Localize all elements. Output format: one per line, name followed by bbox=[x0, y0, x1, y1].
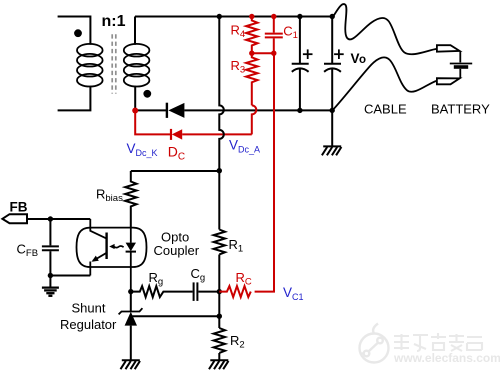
wire output rail left bbox=[135, 109, 167, 111]
node output rail / cap1 bbox=[297, 108, 302, 113]
transistor (opto) bbox=[90, 219, 106, 276]
wire top rail bbox=[135, 16, 332, 18]
wire to earth ground bbox=[49, 276, 51, 288]
wire Dc anode link bbox=[182, 133, 252, 135]
node led / Rg bbox=[128, 289, 133, 294]
connector FB bbox=[2, 214, 27, 223]
resistor R3 bbox=[246, 53, 257, 105]
svg-text:Shunt: Shunt bbox=[72, 300, 106, 315]
ground (chassis, output) bbox=[322, 146, 341, 155]
wire output rail right bbox=[184, 109, 332, 111]
node feedback divider top bbox=[217, 168, 222, 173]
node FB / CFB bbox=[48, 216, 53, 221]
watermark logo bbox=[360, 324, 389, 363]
secondary polarity dot bbox=[143, 90, 151, 98]
primary polarity dot bbox=[74, 29, 82, 37]
wire primary top stub bbox=[58, 17, 91, 45]
capacitor C1 bbox=[265, 17, 283, 54]
shunt regulator (TL431) bbox=[119, 292, 143, 361]
node top rail / middle vertical bbox=[217, 14, 222, 19]
led (opto) bbox=[126, 228, 136, 292]
resistor Rbias bbox=[125, 171, 136, 228]
svg-text:CABLE: CABLE bbox=[364, 102, 407, 117]
node top rail / cap2 cable bbox=[330, 14, 335, 19]
capacitor Cg bbox=[172, 282, 219, 301]
diode Dc (red) bbox=[171, 129, 182, 140]
wire C1 long line down to Rc bbox=[255, 53, 274, 291]
ground (chassis, shunt) bbox=[121, 360, 141, 369]
wire ref to divider bbox=[133, 315, 220, 317]
plus sign cap2 bbox=[334, 49, 344, 59]
transformer primary winding bbox=[77, 44, 103, 87]
battery symbol bbox=[450, 51, 472, 78]
diode (black rectifier) bbox=[167, 103, 185, 118]
wire secondary bottom lead bbox=[134, 86, 136, 111]
svg-text:Opto: Opto bbox=[161, 229, 189, 244]
wire R4-C1 bottom link bbox=[252, 52, 274, 54]
capacitor output 2 bbox=[324, 17, 341, 111]
node Rc / Cg / R1 bbox=[217, 289, 222, 294]
wire Dc cathode link bbox=[135, 111, 171, 135]
svg-text:FB: FB bbox=[10, 200, 28, 215]
wire middle vertical with hops bbox=[219, 17, 224, 230]
node R4 bottom bbox=[249, 51, 254, 56]
capacitor CFB bbox=[42, 219, 59, 276]
wire CFB bottom to opto bbox=[50, 275, 90, 277]
node top rail / cap1 bbox=[297, 14, 302, 19]
svg-text:Coupler: Coupler bbox=[154, 243, 200, 258]
transistor emitter arrow bbox=[92, 256, 99, 262]
resistor R2 bbox=[214, 328, 225, 353]
node R4 top (red) bbox=[249, 14, 254, 19]
watermark chinese text bbox=[394, 333, 482, 351]
light arrow bbox=[109, 244, 123, 249]
ground (chassis, R2) bbox=[209, 360, 229, 369]
node secondary bottom (red) bbox=[132, 108, 138, 114]
ground (earth, CFB) bbox=[42, 288, 59, 296]
wire cable lower bbox=[332, 57, 437, 110]
wire FB to opto bbox=[27, 218, 90, 220]
wire cable upper bbox=[332, 4, 437, 54]
node output rail / cap2 bbox=[330, 108, 335, 113]
resistor Rc (red) bbox=[219, 286, 250, 297]
connector plug upper bbox=[437, 45, 460, 52]
resistor R1 bbox=[214, 230, 225, 255]
wire primary bottom stub bbox=[58, 86, 91, 111]
wire secondary top lead bbox=[134, 17, 136, 45]
svg-text:Regulator: Regulator bbox=[60, 317, 117, 332]
wire cap2 to ground bbox=[331, 110, 333, 146]
node C1 bottom bbox=[271, 51, 276, 56]
wire R3 hop over output rail bbox=[252, 105, 256, 134]
resistor R4 bbox=[246, 17, 257, 54]
wire R1 bottom to nodes bbox=[218, 255, 220, 329]
capacitor output 1 bbox=[292, 17, 309, 111]
resistor Rg bbox=[131, 286, 172, 297]
svg-text:www.elecfans.com: www.elecfans.com bbox=[393, 351, 500, 365]
svg-text:Vo: Vo bbox=[351, 51, 367, 66]
transformer secondary winding bbox=[124, 44, 150, 87]
node ref / R2 bbox=[217, 314, 222, 319]
transformer core bbox=[112, 34, 116, 93]
plus sign cap1 bbox=[303, 49, 313, 59]
wire R2 to ground bbox=[218, 353, 220, 360]
svg-text:n:1: n:1 bbox=[102, 13, 126, 30]
svg-text:BATTERY: BATTERY bbox=[431, 102, 490, 117]
node CFB / ground bbox=[48, 273, 53, 278]
wire Rbias top to middle vertical bbox=[131, 170, 220, 172]
connector plug lower bbox=[437, 78, 460, 84]
node C1 top (red) bbox=[271, 14, 276, 19]
opto coupler body bbox=[77, 228, 147, 267]
